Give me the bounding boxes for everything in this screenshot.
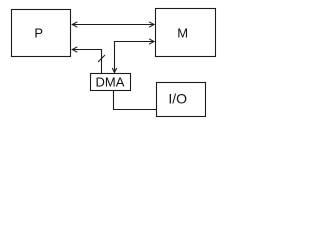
svg-text:M: M <box>177 25 188 40</box>
svg-text:P: P <box>34 25 43 40</box>
wire P-M bidirectional bus <box>72 22 154 27</box>
wire DMA to P interrupt request <box>72 47 101 73</box>
wire DMA to I/O <box>114 90 157 110</box>
wire DMA-M transfer channel <box>112 39 154 73</box>
svg-text:I/O: I/O <box>168 91 187 107</box>
interrupt slash marker <box>98 55 105 62</box>
DMA controller box <box>91 74 131 91</box>
memory box M <box>156 9 216 57</box>
I/O box <box>157 83 206 117</box>
svg-text:DMA: DMA <box>96 74 125 89</box>
processor box P <box>12 10 71 57</box>
